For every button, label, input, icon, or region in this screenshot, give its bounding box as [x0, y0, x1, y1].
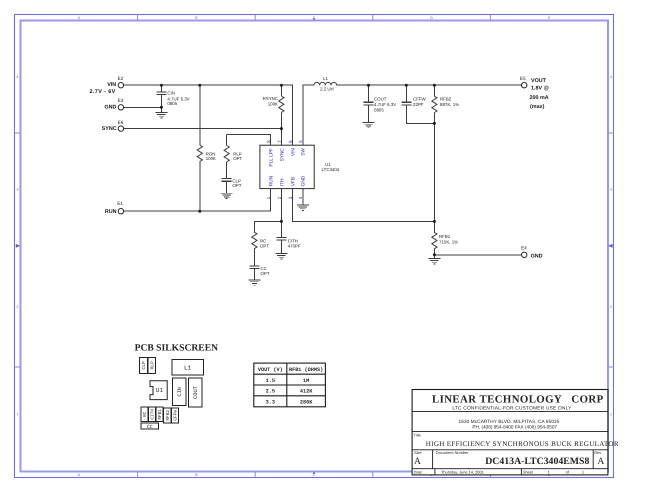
svg-text:412K: 412K: [300, 389, 313, 395]
svg-text:E: E: [548, 16, 551, 20]
svg-text:LTC CONFIDENTIAL-FOR CUSTOMER: LTC CONFIDENTIAL-FOR CUSTOMER USE ONLY: [452, 406, 572, 412]
svg-text:3: 3: [17, 188, 19, 192]
svg-text:VOUT: VOUT: [531, 78, 547, 84]
svg-text:4.7UF 6.3V: 4.7UF 6.3V: [374, 102, 396, 107]
svg-text:GND: GND: [301, 175, 307, 186]
svg-text:CLP: CLP: [141, 361, 147, 370]
svg-text:VOUT (V): VOUT (V): [258, 367, 283, 373]
svg-text:Document Number: Document Number: [436, 450, 469, 455]
svg-text:Thursday, June 14, 2001: Thursday, June 14, 2001: [441, 469, 484, 474]
svg-text:CC: CC: [147, 424, 153, 430]
svg-text:COUT: COUT: [374, 96, 387, 101]
svg-text:E6: E6: [118, 120, 124, 125]
svg-text:1: 1: [17, 413, 19, 417]
svg-text:A: A: [78, 16, 81, 20]
svg-text:RC: RC: [143, 411, 148, 417]
svg-text:3: 3: [610, 188, 612, 192]
svg-text:Title: Title: [414, 432, 421, 437]
svg-text:5: 5: [298, 140, 303, 143]
svg-text:DC413A-LTC3404EMS8: DC413A-LTC3404EMS8: [485, 456, 589, 467]
svg-text:1.8V @: 1.8V @: [531, 86, 549, 92]
svg-text:1.5: 1.5: [266, 378, 275, 384]
svg-text:2: 2: [277, 196, 282, 199]
svg-text:B: B: [195, 473, 198, 477]
svg-text:RFB1: RFB1: [158, 409, 163, 420]
svg-text:LINEAR TECHNOLOGY CORP: LINEAR TECHNOLOGY CORP: [432, 393, 604, 405]
svg-text:A: A: [414, 456, 421, 467]
svg-text:RFB2: RFB2: [440, 96, 452, 101]
svg-text:200 mA: 200 mA: [530, 95, 549, 101]
svg-text:4: 4: [17, 75, 19, 79]
svg-text:CIN: CIN: [177, 387, 183, 397]
svg-text:D: D: [430, 16, 433, 20]
svg-text:1: 1: [610, 413, 612, 417]
svg-text:CIN: CIN: [167, 90, 175, 95]
svg-text:CFFW: CFFW: [413, 96, 427, 101]
svg-text:A: A: [78, 473, 81, 477]
svg-text:PH. (408) 954-8400 FAX (408): PH. (408) 954-8400 FAX (408) 954-0507: [472, 425, 557, 430]
svg-text:3: 3: [288, 196, 293, 199]
svg-text:ITH: ITH: [279, 178, 285, 186]
svg-text:2.7V - 6V: 2.7V - 6V: [90, 89, 116, 95]
svg-text:100K: 100K: [268, 101, 278, 106]
svg-text:VIN: VIN: [107, 82, 116, 88]
svg-text:715K, 1%: 715K, 1%: [439, 239, 458, 244]
svg-text:E5: E5: [520, 76, 526, 81]
svg-text:OPT: OPT: [261, 271, 270, 276]
svg-text:E3: E3: [118, 98, 124, 103]
svg-text:1: 1: [548, 469, 550, 474]
svg-text:GND: GND: [531, 253, 543, 259]
svg-text:8: 8: [266, 140, 271, 143]
svg-text:GND: GND: [104, 104, 116, 110]
svg-text:U1: U1: [156, 387, 164, 394]
svg-text:1630 McCARTHY BLVD. MILPITAS,: 1630 McCARTHY BLVD. MILPITAS, CA 95035: [459, 419, 560, 424]
svg-text:3.3: 3.3: [266, 400, 275, 406]
svg-text:L1: L1: [184, 364, 192, 371]
svg-text:1M: 1M: [303, 378, 309, 384]
svg-text:HIGH EFFICIENCY SYNCHRONOUS BU: HIGH EFFICIENCY SYNCHRONOUS BUCK REGULAT…: [426, 440, 619, 448]
svg-text:PCB SILKSCREEN: PCB SILKSCREEN: [135, 342, 219, 353]
svg-text:VFB: VFB: [290, 177, 296, 186]
svg-text:LTC3404: LTC3404: [322, 167, 340, 172]
svg-text:(max): (max): [530, 104, 545, 110]
svg-text:RFB1 (OHMS): RFB1 (OHMS): [289, 367, 323, 373]
svg-text:1: 1: [582, 469, 584, 474]
svg-text:L1: L1: [323, 76, 328, 81]
svg-text:VIN: VIN: [290, 148, 296, 157]
svg-text:SW: SW: [301, 148, 307, 156]
svg-text:RFB1: RFB1: [439, 234, 451, 239]
svg-text:2: 2: [610, 305, 612, 309]
svg-text:Sheet: Sheet: [523, 469, 534, 474]
svg-text:SYNC: SYNC: [102, 126, 117, 132]
svg-text:CITH: CITH: [151, 409, 156, 420]
svg-text:E2: E2: [118, 76, 124, 81]
svg-text:280K: 280K: [300, 400, 313, 406]
svg-text:Rev: Rev: [594, 450, 601, 455]
svg-text:C: C: [313, 473, 316, 477]
svg-text:RFB2: RFB2: [166, 410, 171, 421]
svg-text:PLL LPF: PLL LPF: [269, 148, 275, 167]
svg-text:OPT: OPT: [260, 244, 269, 249]
svg-text:COUT: COUT: [193, 385, 199, 399]
svg-text:0805: 0805: [374, 108, 384, 113]
svg-text:RUN: RUN: [269, 175, 275, 186]
svg-text:6: 6: [288, 140, 293, 143]
svg-text:E4: E4: [521, 246, 527, 251]
svg-text:RLP: RLP: [149, 361, 155, 370]
svg-text:7: 7: [277, 140, 282, 143]
svg-text:4: 4: [298, 196, 303, 199]
svg-text:B: B: [195, 16, 198, 20]
svg-text:470PF: 470PF: [288, 244, 301, 249]
svg-text:RUN: RUN: [105, 209, 117, 215]
svg-text:A: A: [597, 456, 604, 467]
svg-text:2.5: 2.5: [266, 389, 275, 395]
svg-text:OPT: OPT: [232, 183, 241, 188]
svg-text:22PF: 22PF: [413, 102, 424, 107]
svg-text:C: C: [313, 16, 316, 20]
svg-text:887K, 1%: 887K, 1%: [440, 102, 459, 107]
svg-text:OPT: OPT: [233, 156, 242, 161]
svg-text:100K: 100K: [206, 156, 216, 161]
svg-text:4: 4: [610, 75, 612, 79]
svg-text:1: 1: [266, 196, 271, 199]
svg-text:2.2 UH: 2.2 UH: [320, 87, 334, 92]
svg-text:0805: 0805: [167, 101, 177, 106]
svg-text:CFFW: CFFW: [173, 410, 178, 421]
svg-text:SYNC: SYNC: [279, 148, 285, 162]
svg-text:2: 2: [17, 305, 19, 309]
svg-text:Date:: Date:: [414, 470, 423, 475]
svg-text:E1: E1: [117, 201, 123, 206]
svg-text:Size: Size: [414, 450, 422, 455]
